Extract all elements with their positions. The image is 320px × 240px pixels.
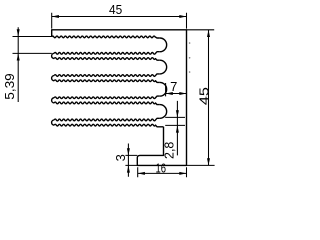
small print dots right of body	[189, 42, 191, 73]
dimension text 3	[113, 154, 128, 161]
svg-text:7: 7	[170, 79, 177, 94]
slot 1 rounded end	[160, 38, 167, 52]
dimension 2,8 (fin root thickness): extension lines, leader, arrows	[165, 101, 185, 155]
dimension 5,39 (fin gap): extension lines, dimension line, arrows	[13, 27, 53, 102]
dimension text 45 top	[109, 2, 122, 17]
svg-text:2,8: 2,8	[161, 142, 176, 159]
dimension 45 (right height): extension lines, dimension line, arrows	[187, 30, 215, 166]
dimension 7 (body wall): extension line, dimension line, arrows	[166, 83, 187, 96]
svg-text:5,39: 5,39	[2, 73, 17, 100]
dimension 3 (foot thickness): extension lines, leader, arrows	[125, 144, 137, 177]
fin 5 with rounded tip and serrated surfaces	[52, 118, 164, 127]
fin 1 serrated bottom surface	[52, 36, 160, 38]
fin 4 with rounded tip and serrated surfaces	[52, 96, 160, 105]
fin 2 with rounded tip and serrated surfaces	[52, 52, 160, 61]
svg-text:16: 16	[156, 161, 167, 176]
slot 4 rounded end	[160, 105, 167, 119]
heatsink extrusion profile technical drawing	[0, 0, 241, 186]
slot 3 rounded end	[160, 82, 167, 96]
svg-text:45: 45	[196, 87, 211, 105]
dimension text 7	[170, 79, 177, 94]
dimension text 45 right	[196, 87, 211, 105]
svg-text:45: 45	[109, 2, 122, 17]
profile outline: top plate, body right edge, bottom edge, foot and slot-5 wall	[52, 30, 187, 166]
dimension text 2,8	[161, 142, 176, 159]
dimension 16 (foot width): extension lines, dimension line, arrows	[138, 167, 187, 177]
dimension text 5,39	[2, 73, 17, 100]
svg-text:3: 3	[113, 154, 128, 161]
dimension 45 (top width): extension lines, dimension line, arrows	[52, 13, 187, 29]
slot 2 rounded end	[160, 60, 167, 74]
dimension text 16	[156, 161, 167, 176]
fin 3 with rounded tip and serrated surfaces	[52, 74, 160, 83]
